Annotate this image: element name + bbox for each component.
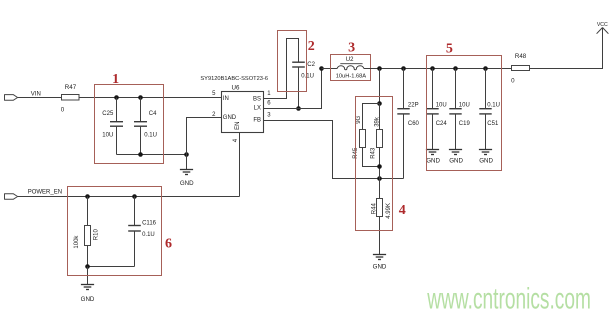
svg-text:VIN: VIN — [31, 92, 41, 98]
annotation box 6 — [68, 187, 162, 276]
node C4 tap — [138, 95, 143, 100]
svg-text:100k: 100k — [74, 235, 80, 249]
svg-text:POWER_EN: POWER_EN — [28, 190, 62, 196]
svg-text:4.99K: 4.99K — [386, 203, 392, 219]
svg-text:C24: C24 — [436, 121, 448, 127]
wire R43 branch — [379, 104, 381, 130]
svg-text:3: 3 — [348, 41, 355, 56]
svg-text:10U: 10U — [102, 133, 113, 139]
resistor R48 — [511, 53, 529, 85]
capacitor C2 — [292, 62, 315, 79]
svg-text:GND: GND — [373, 263, 387, 270]
svg-text:6: 6 — [165, 236, 172, 251]
wire C2 bottom to LX — [298, 67, 300, 108]
svg-text:10U: 10U — [436, 103, 447, 109]
wire VOUT to divider — [379, 69, 381, 104]
capacitor C25 — [102, 98, 123, 155]
capacitor C24 — [426, 69, 447, 150]
svg-text:0: 0 — [511, 77, 515, 84]
capacitor C116 — [128, 197, 156, 267]
svg-text:GND: GND — [479, 158, 493, 165]
wire LX to inductor — [264, 69, 322, 109]
svg-text:C51: C51 — [487, 121, 499, 127]
svg-text:VCC: VCC — [597, 22, 608, 28]
wire U6 GND pin to junction — [187, 118, 222, 155]
svg-text:EN: EN — [235, 122, 241, 130]
svg-text:0.1U: 0.1U — [487, 103, 500, 109]
svg-text:39k: 39k — [374, 116, 380, 127]
svg-text:9G: 9G — [356, 115, 362, 123]
svg-text:LX: LX — [254, 105, 261, 111]
connector J-VIN — [5, 95, 18, 101]
svg-text:4: 4 — [399, 203, 406, 218]
svg-text:0: 0 — [61, 107, 65, 114]
ground GND C19 — [449, 150, 464, 165]
node C25 tap — [114, 95, 119, 100]
svg-text:C25: C25 — [102, 111, 114, 117]
wire U6 EN pin down — [239, 133, 241, 197]
node R10 tap — [85, 194, 90, 199]
svg-text:C2: C2 — [307, 62, 315, 68]
node C19 tap — [453, 66, 458, 71]
svg-text:U6: U6 — [232, 85, 240, 92]
resistor R43 — [370, 116, 382, 159]
wire FB to R44 — [379, 179, 381, 199]
ground GND R44 — [373, 255, 387, 271]
svg-text:0.1U: 0.1U — [142, 232, 155, 238]
node LX corner — [319, 66, 324, 71]
wire R48 to VCC — [530, 28, 603, 69]
svg-text:0.1U: 0.1U — [301, 73, 314, 79]
svg-text:10uH-1.68A: 10uH-1.68A — [336, 73, 367, 79]
wire C116 bottom to R10 bottom — [88, 266, 135, 268]
node C60 tap — [401, 66, 406, 71]
connector J-POWER_EN — [5, 194, 18, 200]
annotation box 4 — [356, 97, 393, 231]
node input gnd junction — [184, 152, 189, 157]
node C4 bottom — [138, 152, 143, 157]
resistor R10 — [74, 197, 99, 267]
wire input cap ground rail — [117, 154, 187, 156]
ground GND R10 — [81, 267, 95, 303]
svg-text:1: 1 — [112, 72, 119, 87]
svg-text:C19: C19 — [459, 121, 471, 127]
svg-text:FB: FB — [253, 117, 261, 123]
power VCC — [597, 22, 609, 34]
svg-text:GND: GND — [180, 180, 194, 187]
resistor R45 — [353, 115, 366, 158]
annotation box 3 — [331, 55, 371, 81]
wire POWER_EN to EN — [18, 196, 240, 198]
wire R45 branch bottom — [363, 148, 380, 167]
wire VIN to R47 — [18, 97, 62, 99]
svg-text:BS: BS — [253, 97, 261, 103]
svg-text:GND: GND — [81, 296, 95, 303]
capacitor C19 — [449, 69, 470, 150]
node FB junction — [377, 176, 382, 181]
svg-text:C60: C60 — [408, 121, 420, 127]
ground GND input — [180, 155, 194, 187]
svg-text:U2: U2 — [346, 57, 354, 63]
resistor R44 — [372, 199, 392, 219]
node inductor out — [377, 66, 382, 71]
svg-text:SY9120B1ABC-SSOT23-6: SY9120B1ABC-SSOT23-6 — [200, 76, 268, 82]
svg-text:R10: R10 — [93, 229, 99, 241]
svg-text:5: 5 — [446, 42, 453, 57]
node C2-LX junction — [296, 106, 301, 111]
wire R47 to U6 IN — [79, 97, 222, 99]
resistor R47 — [61, 84, 79, 113]
svg-text:www.cntronics.com: www.cntronics.com — [427, 282, 591, 314]
svg-text:0.1U: 0.1U — [144, 133, 157, 139]
svg-text:2: 2 — [308, 39, 315, 54]
svg-text:10U: 10U — [459, 103, 470, 109]
node R10 bottom — [85, 264, 90, 269]
svg-text:R44: R44 — [372, 203, 378, 215]
node C51 tap — [483, 66, 488, 71]
annotation box 2 — [278, 31, 307, 92]
svg-text:IN: IN — [223, 96, 229, 102]
node divider bottom — [377, 164, 382, 169]
IC U6 SY9120B1ABC-SSOT23-6 buck regulator — [200, 76, 268, 132]
svg-text:R47: R47 — [65, 84, 77, 91]
wire R44 to ground — [379, 217, 381, 255]
svg-text:GND: GND — [223, 115, 237, 121]
wire R43 to FB node — [379, 148, 381, 179]
annotation box 5 — [427, 56, 502, 171]
svg-text:GND: GND — [449, 158, 463, 165]
svg-text:C116: C116 — [142, 221, 157, 227]
svg-text:R48: R48 — [515, 53, 527, 60]
wire BS bootstrap loop — [264, 39, 299, 99]
wire FB net — [264, 121, 404, 179]
svg-text:GND: GND — [426, 158, 440, 165]
capacitor C60 — [397, 69, 419, 179]
wire VOUT rail — [364, 68, 512, 70]
capacitor C51 — [479, 69, 500, 150]
inductor U2 — [336, 57, 367, 79]
ground GND C24 — [426, 150, 441, 165]
ground GND C51 — [479, 150, 494, 165]
svg-text:22P: 22P — [408, 103, 419, 109]
node divider top — [377, 101, 382, 106]
annotation box 1 — [95, 85, 164, 164]
svg-text:C4: C4 — [149, 111, 157, 117]
node C116 tap — [132, 194, 137, 199]
svg-text:R43: R43 — [370, 147, 376, 159]
wire into inductor — [322, 68, 338, 70]
wire R45 branch top — [363, 104, 380, 130]
capacitor C4 — [134, 98, 157, 155]
node C24 tap — [430, 66, 435, 71]
